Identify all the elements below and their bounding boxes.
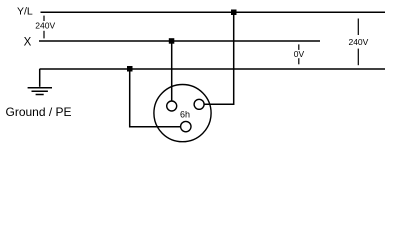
wire drop from X to socket pin N	[171, 41, 173, 101]
wire from Ground to socket earth pin	[130, 69, 181, 127]
ground	[28, 69, 52, 95]
node junction on Ground	[127, 66, 133, 72]
socket earth pin (bottom)	[181, 121, 191, 131]
socket pin L (top-right)	[194, 99, 204, 109]
voltmeter 240V between Y/L and Ground	[348, 19, 368, 66]
wire Y/L line	[41, 11, 386, 13]
wire X line	[39, 40, 320, 42]
voltmeter 0V between X and Ground	[294, 44, 305, 64]
svg-text:240V: 240V	[348, 37, 368, 47]
voltmeter 240V between Y/L and X	[35, 16, 55, 39]
svg-text:0V: 0V	[294, 49, 305, 59]
svg-text:240V: 240V	[35, 21, 55, 31]
wire drop from Y/L to socket pin L	[204, 12, 234, 104]
socket pin N (top-left)	[167, 101, 177, 111]
svg-text:X: X	[24, 36, 32, 48]
socket connector body	[154, 85, 211, 142]
svg-text:Ground / PE: Ground / PE	[6, 105, 72, 119]
svg-text:Y/L: Y/L	[17, 6, 33, 18]
svg-text:6h: 6h	[180, 110, 190, 120]
wire Ground/PE line	[40, 68, 386, 70]
node junction on Y/L	[231, 10, 237, 16]
node junction on X	[169, 38, 175, 44]
